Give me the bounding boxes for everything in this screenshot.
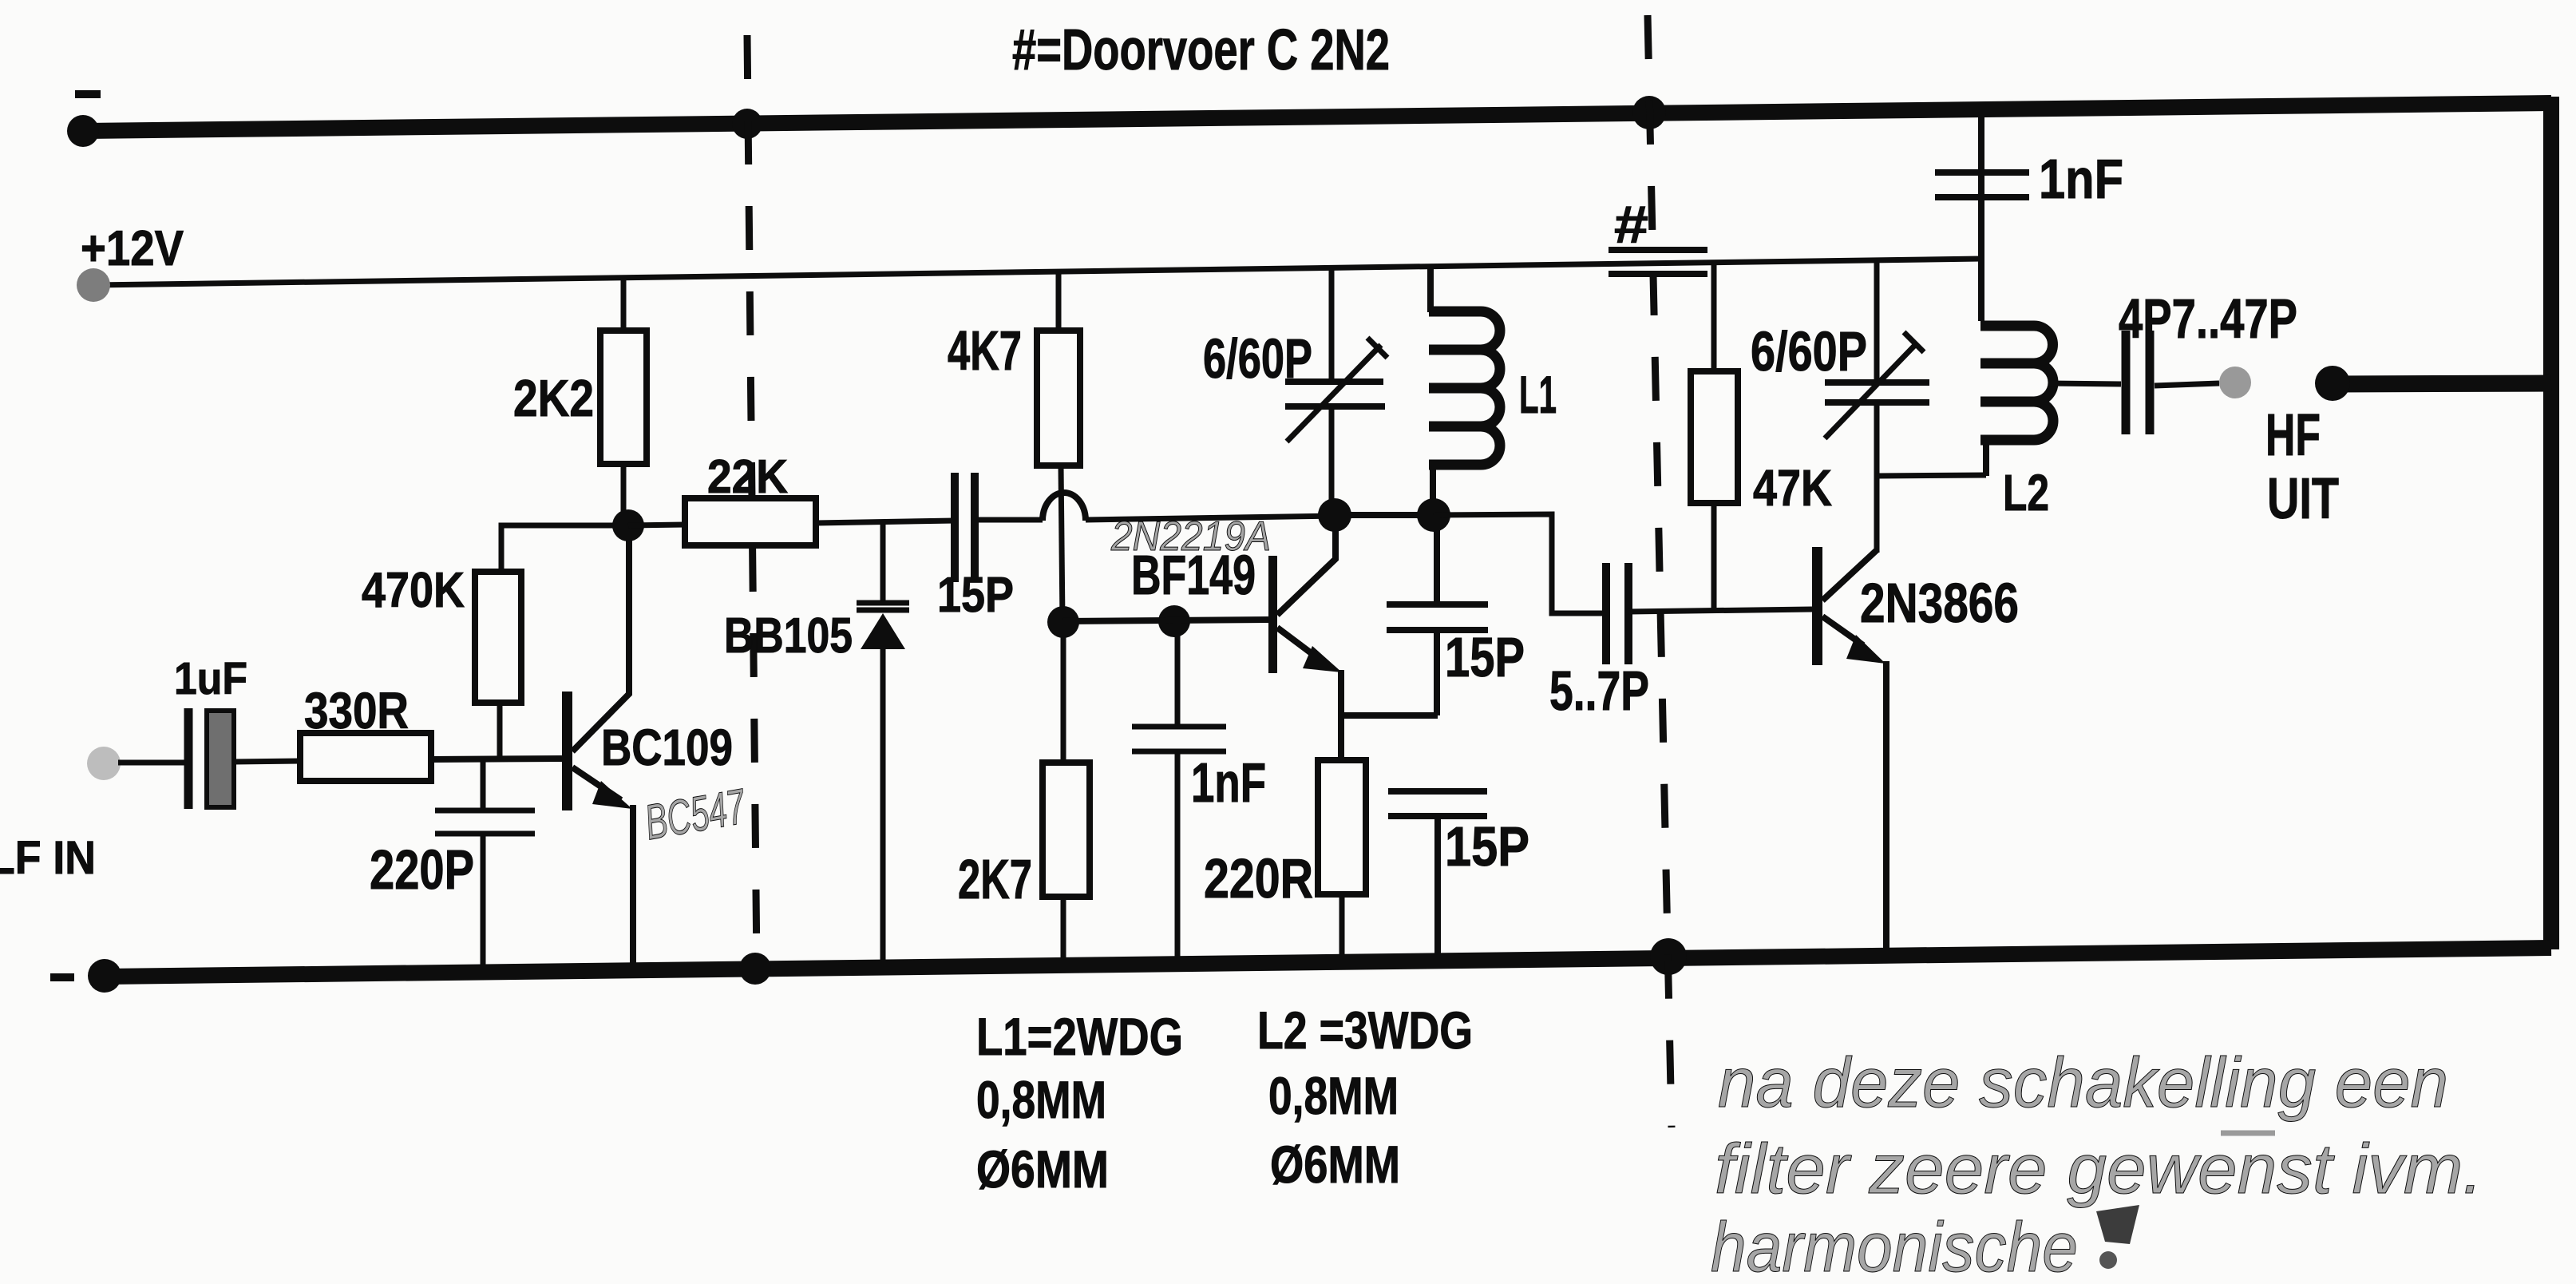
label L1 diameter 6MM <box>976 1139 1109 1199</box>
label LF IN <box>0 832 96 884</box>
label L2 <box>2003 464 2049 521</box>
label 47K <box>1753 459 1832 517</box>
wire ground rail top <box>83 103 2551 131</box>
label 15P lower <box>1445 815 1529 878</box>
wire LF IN to C1 <box>118 760 185 766</box>
svg-text:LF IN: LF IN <box>0 832 96 884</box>
label 6/60P stage2 <box>1203 327 1312 390</box>
svg-text:15P: 15P <box>1445 815 1529 878</box>
svg-text:HF: HF <box>2265 402 2321 468</box>
svg-text:220P: 220P <box>370 838 474 901</box>
inductor L1 <box>1429 266 1500 515</box>
wire collector to L2 bottom <box>1877 475 1986 476</box>
svg-text:UIT: UIT <box>2267 467 2339 531</box>
label 4P7..47P <box>2119 287 2297 350</box>
capacitor C6 15P lower <box>1388 791 1487 961</box>
svg-text:L1=2WDG: L1=2WDG <box>976 1007 1183 1066</box>
label BC547 handwritten <box>641 779 751 850</box>
label 2K7 <box>958 848 1032 910</box>
node base line right <box>1158 605 1190 637</box>
label 220R <box>1204 847 1313 909</box>
label 15P upper <box>1445 626 1525 688</box>
wire hop to tank node <box>1086 516 1335 520</box>
handwritten note line 3 <box>1711 1207 2078 1284</box>
label BC109 <box>601 719 733 776</box>
svg-text:47K: 47K <box>1753 459 1832 517</box>
label 220P <box>370 838 474 901</box>
svg-text:harmonische: harmonische <box>1711 1207 2078 1284</box>
svg-text:+12V: +12V <box>81 221 184 276</box>
label BF149 <box>1131 544 1256 606</box>
label 2N3866 <box>1860 572 2019 634</box>
capacitor C3 15P series <box>955 473 975 582</box>
resistor R7 220R <box>1318 760 1366 963</box>
node bottom rail / dashed line 2 <box>1650 938 1687 975</box>
handwritten exclamation blob <box>2096 1205 2139 1269</box>
svg-text:Ø6MM: Ø6MM <box>1270 1135 1400 1194</box>
wire C3 to hop <box>975 517 1043 523</box>
capacitor C1 1uF <box>188 708 234 809</box>
wire tank nodes <box>1335 512 1434 518</box>
svg-text:L2 =3WDG: L2 =3WDG <box>1257 1001 1473 1060</box>
transistor Q3 2N3866 <box>1812 547 1886 958</box>
wire base line Q2 <box>1063 620 1268 621</box>
resistor R3 2K2 <box>600 278 647 525</box>
transistor Q1 BC109 <box>562 525 633 971</box>
inductor L2 <box>1980 326 2121 476</box>
wire C1 to R1 <box>234 761 300 762</box>
svg-text:na deze schakelling een: na deze schakelling een <box>1718 1043 2448 1122</box>
svg-text:0,8MM: 0,8MM <box>976 1070 1106 1129</box>
svg-text:0,8MM: 0,8MM <box>1268 1066 1399 1125</box>
label title #=Doorvoer C 2N2 <box>1012 18 1390 82</box>
resistor R2 470K <box>475 525 628 759</box>
capacitor C9 4P7..47P <box>2126 331 2219 434</box>
label # <box>1614 195 1648 254</box>
resistor R4 22K <box>685 498 816 545</box>
label L2 diameter 6MM <box>1270 1135 1400 1194</box>
wire +12V rail <box>93 259 1981 285</box>
svg-text:6/60P: 6/60P <box>1751 320 1867 382</box>
label L1 <box>1519 365 1557 424</box>
svg-text:5..7P: 5..7P <box>1549 660 1649 722</box>
svg-text:15P: 15P <box>1445 626 1525 688</box>
label 1nF <box>1191 751 1266 814</box>
svg-text:22K: 22K <box>707 450 788 503</box>
node tank left <box>1318 498 1351 532</box>
svg-text:4K7: 4K7 <box>948 319 1022 382</box>
dashed stage separator 2 <box>1648 15 1672 1127</box>
svg-text:220R: 220R <box>1204 847 1313 909</box>
svg-text:1uF: 1uF <box>174 653 247 704</box>
svg-text:BB105: BB105 <box>724 608 853 664</box>
wire ground rail right border <box>2543 97 2559 949</box>
node HF UIT inner terminal (gray) <box>2219 367 2251 398</box>
label 2K2 <box>513 369 594 427</box>
node top rail / dashed line 1 <box>732 109 762 139</box>
svg-text:filter zeere gewenst ivm.: filter zeere gewenst ivm. <box>1715 1129 2483 1208</box>
svg-text:330R: 330R <box>304 682 409 739</box>
svg-text:2N3866: 2N3866 <box>1860 572 2019 634</box>
label minus bottom-left <box>50 973 74 981</box>
label L2 =3WDG <box>1257 1001 1473 1060</box>
wire R4 to C3 <box>816 521 955 523</box>
label L1 0,8MM <box>976 1070 1106 1129</box>
svg-text:1nF: 1nF <box>1191 751 1266 814</box>
label L1=2WDG <box>976 1007 1183 1066</box>
transistor Q2 BF149 <box>1268 515 1438 760</box>
resistor R8 47K <box>1691 260 1738 610</box>
svg-text:#=Doorvoer C 2N2: #=Doorvoer C 2N2 <box>1012 18 1390 82</box>
node tank right <box>1417 498 1450 532</box>
resistor R6 2K7 <box>1043 622 1090 966</box>
label 330R <box>304 682 409 739</box>
wire tank to C7 <box>1434 514 1606 613</box>
handwritten note line 2 <box>1715 1129 2483 1208</box>
node base line left <box>1047 606 1079 638</box>
svg-text:L1: L1 <box>1519 365 1557 424</box>
label 1uF <box>174 653 247 704</box>
svg-text:#: # <box>1614 195 1648 254</box>
svg-text:470K: 470K <box>362 563 465 618</box>
svg-text:2K2: 2K2 <box>513 369 594 427</box>
svg-text:6/60P: 6/60P <box>1203 327 1312 390</box>
label 2N2219A handwritten <box>1110 513 1271 560</box>
capacitor C4 1nF <box>1132 621 1226 965</box>
label +12V <box>81 221 184 276</box>
capacitor C7 5..7P <box>1606 563 1812 664</box>
resistor R5 4K7 <box>1037 271 1080 622</box>
trimmer capacitor CT2 6/60P <box>1825 261 1929 553</box>
label HF <box>2265 402 2321 468</box>
node bottom rail / dashed line 1 <box>739 953 771 985</box>
handwritten underline <box>2221 1131 2275 1136</box>
svg-text:2K7: 2K7 <box>958 848 1032 910</box>
node ground bottom-left terminal <box>88 959 121 993</box>
svg-text:L2: L2 <box>2003 464 2049 521</box>
capacitor C2 220P <box>435 759 535 972</box>
node ground top-left terminal <box>67 115 99 147</box>
svg-text:1nF: 1nF <box>2039 148 2123 210</box>
wire R1 to base of Q1 <box>431 759 562 759</box>
label 6/60P stage3 <box>1751 320 1867 382</box>
label 1nF top <box>2039 148 2123 210</box>
label 5..7P <box>1549 660 1649 722</box>
svg-text:4P7..47P: 4P7..47P <box>2119 287 2297 350</box>
label BB105 <box>724 608 853 664</box>
node +12V terminal (gray) <box>77 268 110 302</box>
capacitor feedthrough # <box>1609 250 1707 274</box>
capacitor C5 15P upper <box>1387 515 1488 715</box>
svg-text:15P: 15P <box>937 568 1014 623</box>
handwritten note line 1 <box>1718 1043 2448 1122</box>
label minus top-left <box>75 90 101 98</box>
wire ground rail bottom <box>105 948 2551 977</box>
svg-text:BC109: BC109 <box>601 719 733 776</box>
node LF IN terminal (light gray) <box>87 747 121 780</box>
label UIT <box>2267 467 2339 531</box>
resistor R1 330R <box>300 733 431 781</box>
diode D1 BB105 varicap <box>857 522 909 969</box>
node base node stage1 <box>612 509 644 541</box>
label L2 0,8MM <box>1268 1066 1399 1125</box>
label 22K <box>707 450 788 503</box>
trimmer capacitor CT1 6/60P <box>1285 267 1387 515</box>
capacitor C8 1nF top <box>1935 106 2029 321</box>
svg-text:Ø6MM: Ø6MM <box>976 1139 1109 1199</box>
wire HF UIT stub <box>2333 383 2551 384</box>
dashed stage separator 1 <box>747 35 757 967</box>
svg-text:2N2219A: 2N2219A <box>1110 513 1271 560</box>
wire crossover hop <box>1043 493 1086 521</box>
node HF UIT outer terminal <box>2315 366 2350 401</box>
label 4K7 <box>948 319 1022 382</box>
label 470K <box>362 563 465 618</box>
node top rail / dashed line 2 <box>1632 96 1666 129</box>
wire node to R4 <box>628 525 685 525</box>
label 15P <box>937 568 1014 623</box>
